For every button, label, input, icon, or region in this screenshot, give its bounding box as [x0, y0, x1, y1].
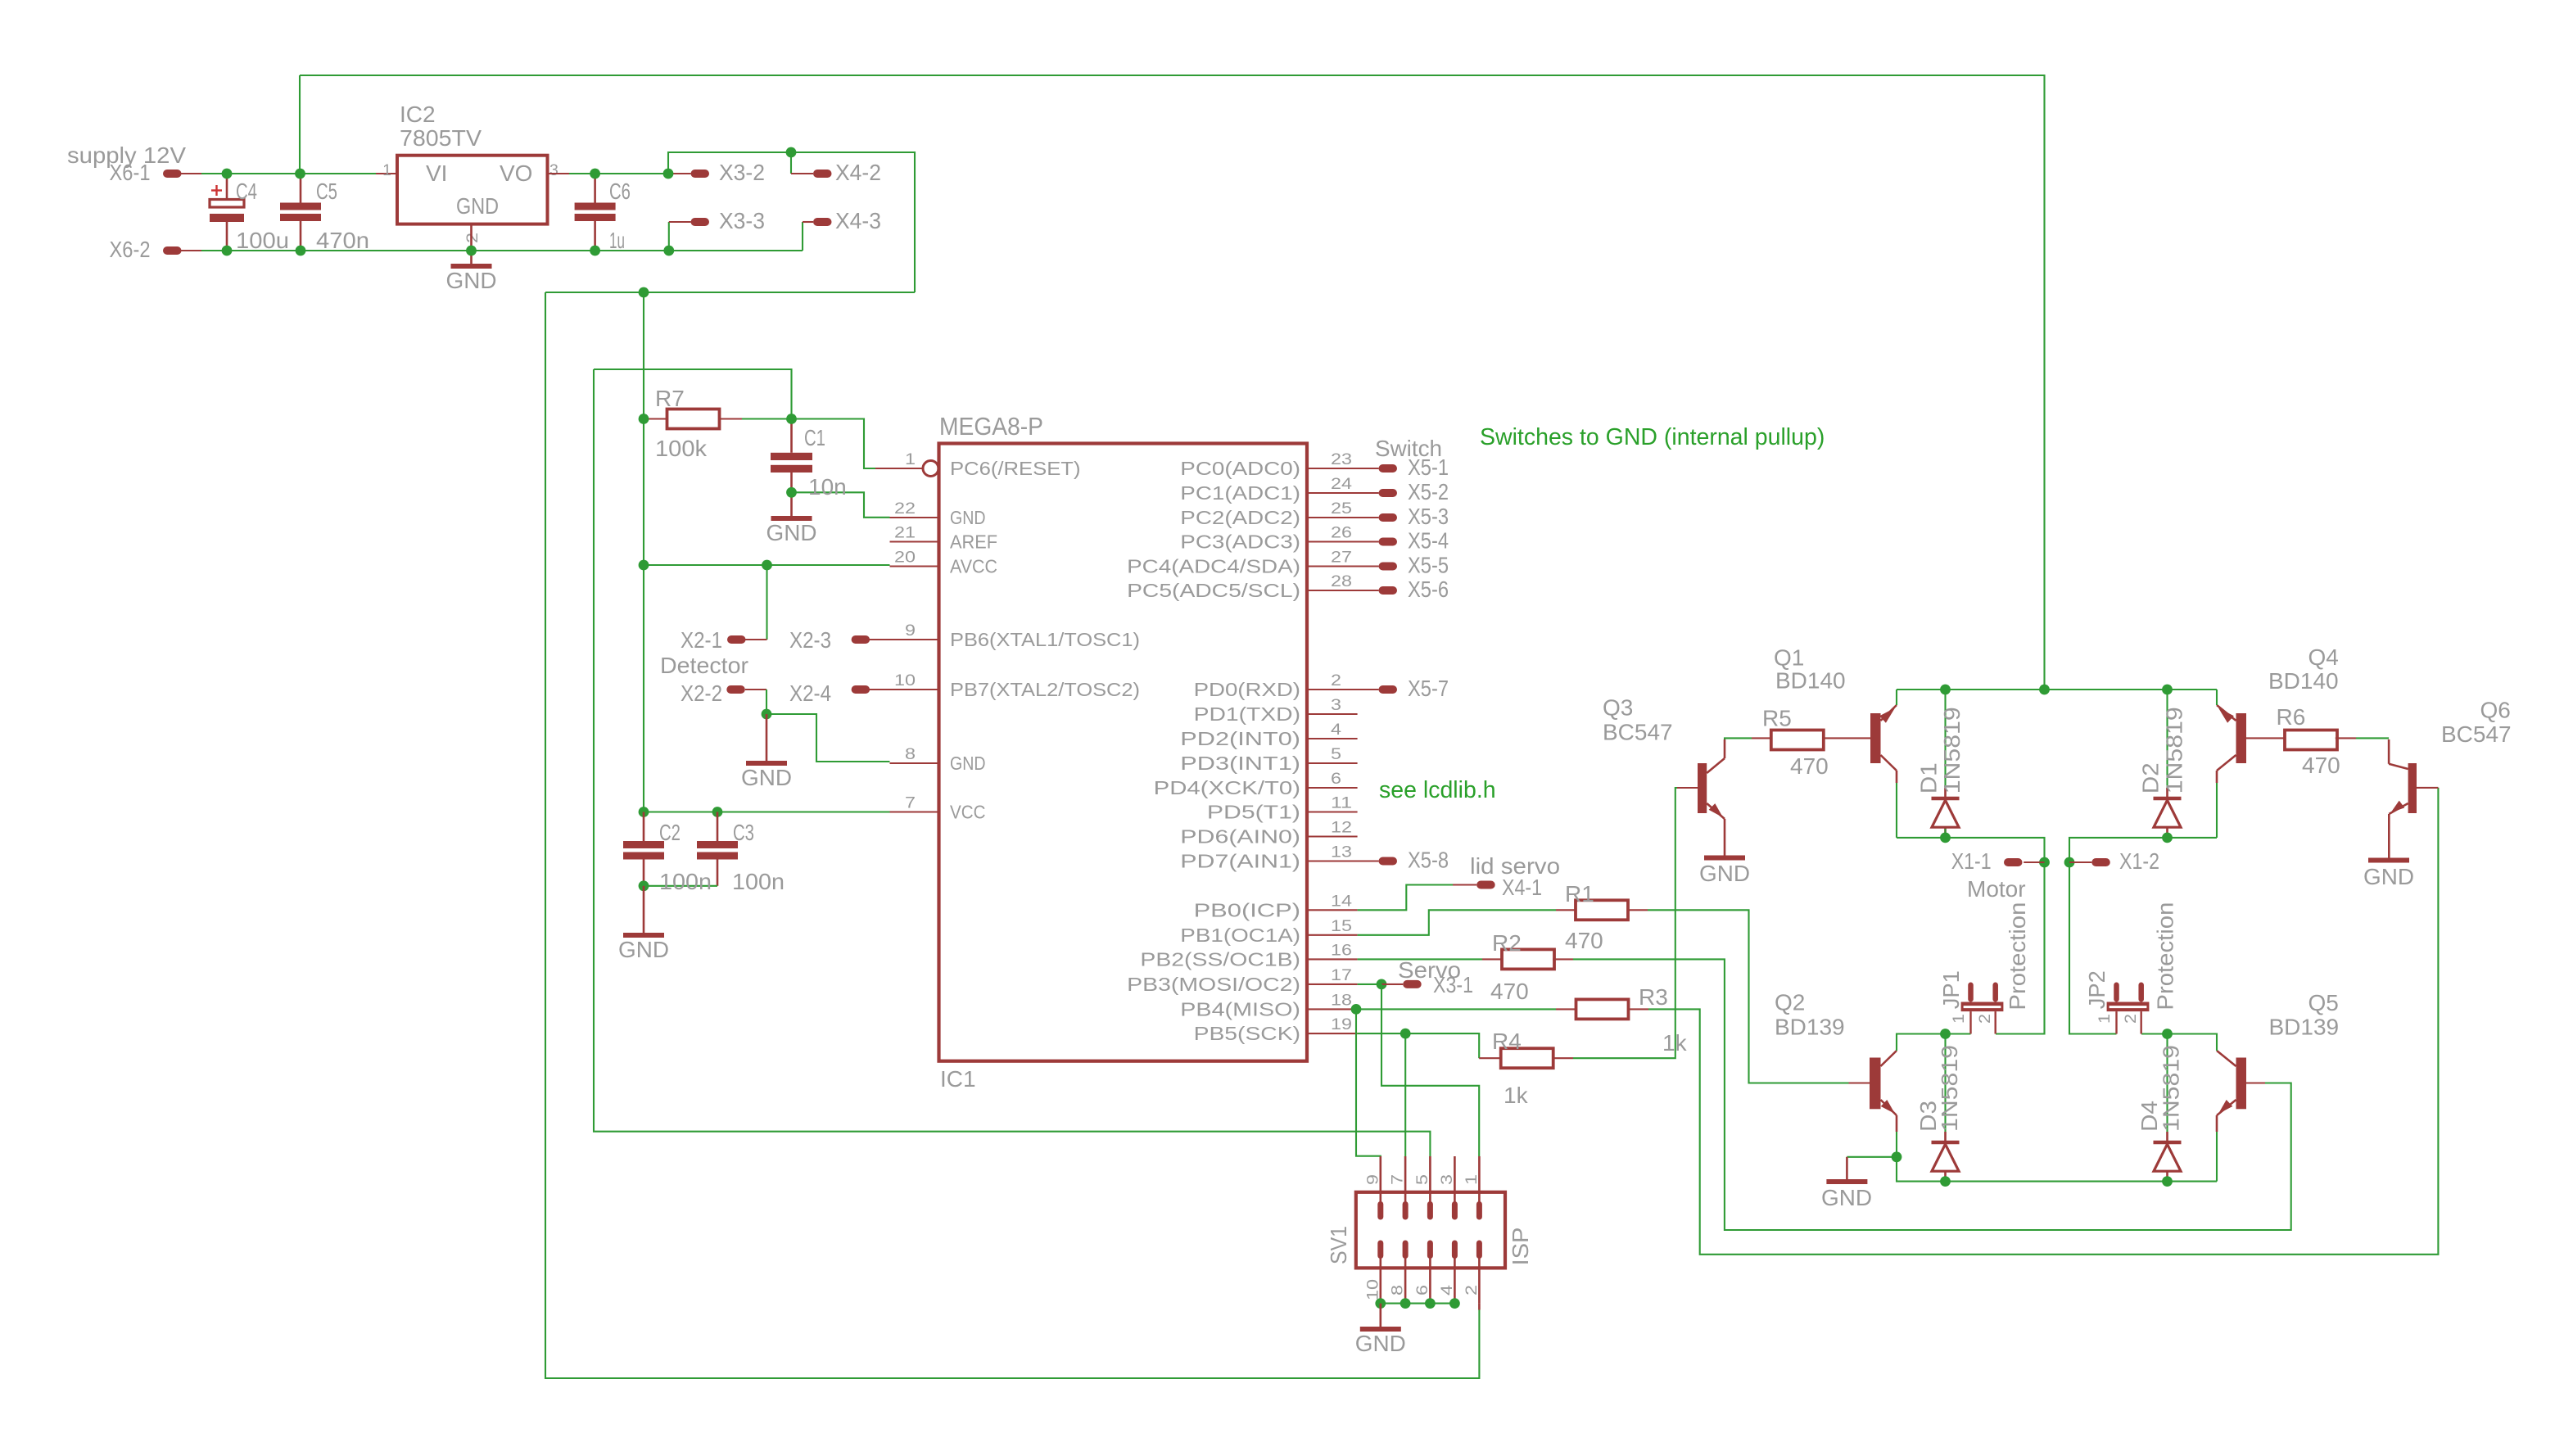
svg-text:X6-1: X6-1	[110, 160, 151, 185]
svg-text:MEGA8-P: MEGA8-P	[939, 412, 1043, 441]
svg-text:see lcdlib.h: see lcdlib.h	[1379, 777, 1496, 803]
svg-text:2: 2	[2122, 1014, 2140, 1024]
svg-text:C5: C5	[316, 179, 337, 204]
svg-text:2: 2	[1976, 1014, 1994, 1024]
svg-text:Q5: Q5	[2308, 990, 2339, 1015]
svg-text:X5-4: X5-4	[1408, 528, 1449, 554]
svg-text:1k: 1k	[1504, 1083, 1529, 1108]
svg-text:100n: 100n	[732, 869, 785, 894]
svg-text:R6: R6	[2277, 704, 2306, 730]
svg-text:VI: VI	[426, 161, 447, 186]
svg-text:R2: R2	[1492, 930, 1522, 956]
svg-text:PD0(RXD): PD0(RXD)	[1194, 679, 1300, 700]
svg-text:C6: C6	[609, 179, 631, 204]
svg-text:R4: R4	[1492, 1029, 1522, 1054]
svg-text:Q1: Q1	[1774, 645, 1804, 671]
svg-text:C3: C3	[733, 820, 754, 845]
svg-text:GND: GND	[766, 520, 817, 545]
svg-text:IC2: IC2	[400, 102, 436, 127]
svg-text:GND: GND	[2363, 864, 2414, 889]
svg-text:X2-1: X2-1	[681, 627, 722, 653]
svg-text:PB7(XTAL2/TOSC2): PB7(XTAL2/TOSC2)	[950, 679, 1140, 700]
svg-text:GND: GND	[1699, 861, 1750, 886]
svg-text:C4: C4	[236, 179, 257, 204]
svg-text:8: 8	[1389, 1285, 1407, 1295]
svg-text:3: 3	[1438, 1174, 1456, 1185]
svg-text:BD139: BD139	[2269, 1015, 2340, 1040]
svg-text:27: 27	[1331, 549, 1352, 567]
svg-text:1u: 1u	[609, 228, 625, 253]
svg-text:7805TV: 7805TV	[400, 125, 482, 151]
svg-text:GND: GND	[950, 507, 986, 528]
svg-text:PB0(ICP): PB0(ICP)	[1194, 899, 1300, 920]
svg-text:AVCC: AVCC	[950, 556, 997, 577]
svg-text:PB2(SS/OC1B): PB2(SS/OC1B)	[1140, 948, 1300, 970]
svg-text:23: 23	[1331, 450, 1352, 468]
svg-text:X1-1: X1-1	[1951, 848, 1992, 874]
svg-text:Protection: Protection	[2153, 902, 2178, 1011]
svg-text:9: 9	[905, 622, 916, 640]
svg-text:1N5819: 1N5819	[1939, 707, 1965, 794]
svg-text:24: 24	[1331, 475, 1352, 493]
svg-text:BD139: BD139	[1775, 1015, 1845, 1040]
svg-text:5: 5	[1413, 1174, 1431, 1185]
svg-text:100n: 100n	[659, 869, 712, 894]
svg-text:PD7(AIN1): PD7(AIN1)	[1180, 851, 1300, 872]
svg-text:470: 470	[1565, 928, 1603, 953]
svg-text:ISP: ISP	[1508, 1228, 1533, 1266]
svg-text:GND: GND	[950, 753, 986, 774]
svg-text:R1: R1	[1565, 881, 1594, 907]
svg-text:1: 1	[382, 161, 391, 179]
svg-text:1N5819: 1N5819	[1937, 1045, 1962, 1132]
svg-text:IC1: IC1	[940, 1066, 976, 1092]
svg-text:X2-4: X2-4	[789, 681, 831, 706]
svg-text:Q4: Q4	[2308, 644, 2339, 670]
svg-text:BD140: BD140	[1775, 668, 1846, 694]
svg-text:1: 1	[1950, 1014, 1968, 1024]
svg-text:25: 25	[1331, 500, 1352, 518]
svg-text:X5-3: X5-3	[1408, 504, 1449, 529]
svg-text:Protection: Protection	[2005, 902, 2030, 1011]
svg-text:X2-3: X2-3	[789, 627, 831, 653]
svg-text:15: 15	[1331, 917, 1352, 935]
svg-text:11: 11	[1331, 794, 1352, 812]
svg-text:X5-6: X5-6	[1408, 577, 1449, 602]
svg-text:1: 1	[905, 450, 916, 468]
svg-text:Switches to GND (internal pull: Switches to GND (internal pullup)	[1480, 424, 1825, 450]
svg-text:JP2: JP2	[2084, 970, 2109, 1009]
svg-text:X5-8: X5-8	[1408, 848, 1449, 873]
svg-text:PB5(SCK): PB5(SCK)	[1194, 1023, 1300, 1044]
svg-text:Q6: Q6	[2480, 698, 2511, 723]
svg-text:PB6(XTAL1/TOSC1): PB6(XTAL1/TOSC1)	[950, 629, 1140, 650]
svg-text:PC0(ADC0): PC0(ADC0)	[1180, 458, 1300, 479]
svg-text:X3-2: X3-2	[719, 160, 765, 185]
svg-text:PD3(INT1): PD3(INT1)	[1180, 753, 1300, 774]
svg-text:C2: C2	[659, 820, 681, 845]
svg-text:PB3(MOSI/OC2): PB3(MOSI/OC2)	[1127, 974, 1300, 995]
svg-text:Q3: Q3	[1603, 695, 1633, 721]
svg-text:1N5819: 1N5819	[2159, 1045, 2184, 1132]
svg-text:3: 3	[549, 161, 558, 179]
svg-text:470: 470	[2302, 753, 2340, 778]
svg-text:X1-2: X1-2	[2119, 848, 2159, 874]
svg-text:14: 14	[1331, 892, 1352, 910]
svg-text:2: 2	[1331, 671, 1341, 690]
svg-text:X2-2: X2-2	[681, 681, 722, 706]
svg-text:1N5819: 1N5819	[2161, 707, 2186, 794]
svg-text:470: 470	[1490, 979, 1529, 1004]
svg-text:PD2(INT0): PD2(INT0)	[1180, 728, 1300, 749]
svg-text:X3-3: X3-3	[719, 208, 765, 233]
svg-text:21: 21	[894, 524, 916, 542]
svg-text:470: 470	[1790, 753, 1829, 779]
svg-text:100k: 100k	[655, 436, 708, 461]
svg-text:PD5(T1): PD5(T1)	[1207, 802, 1300, 823]
svg-text:JP1: JP1	[1938, 970, 1964, 1009]
svg-text:X5-5: X5-5	[1408, 553, 1449, 578]
svg-text:X5-2: X5-2	[1408, 479, 1449, 504]
svg-text:R7: R7	[655, 386, 685, 411]
svg-text:D2: D2	[2138, 762, 2164, 794]
svg-text:PB4(MISO): PB4(MISO)	[1180, 998, 1300, 1020]
svg-text:PC2(ADC2): PC2(ADC2)	[1180, 507, 1300, 528]
svg-text:18: 18	[1331, 991, 1352, 1009]
svg-text:GND: GND	[741, 765, 792, 790]
svg-text:GND: GND	[1821, 1185, 1872, 1210]
svg-text:4: 4	[1331, 721, 1341, 739]
svg-text:10: 10	[1363, 1279, 1381, 1300]
svg-text:PD4(XCK/T0): PD4(XCK/T0)	[1154, 777, 1300, 798]
svg-text:PC3(ADC3): PC3(ADC3)	[1180, 531, 1300, 553]
svg-text:X4-3: X4-3	[835, 208, 881, 233]
svg-text:6: 6	[1413, 1285, 1431, 1295]
svg-text:GND: GND	[446, 268, 497, 293]
svg-text:PC1(ADC1): PC1(ADC1)	[1180, 482, 1300, 504]
svg-text:PC6(/RESET): PC6(/RESET)	[950, 458, 1081, 479]
svg-text:AREF: AREF	[950, 531, 997, 553]
svg-text:7: 7	[1389, 1174, 1407, 1185]
svg-text:20: 20	[894, 549, 916, 567]
svg-text:100u: 100u	[236, 228, 289, 253]
svg-text:BD140: BD140	[2268, 668, 2339, 694]
svg-text:PB1(OC1A): PB1(OC1A)	[1180, 925, 1300, 946]
svg-text:470n: 470n	[316, 228, 369, 253]
svg-text:4: 4	[1438, 1285, 1456, 1295]
svg-text:17: 17	[1331, 966, 1352, 984]
svg-text:SV1: SV1	[1326, 1226, 1351, 1264]
svg-text:VCC: VCC	[950, 802, 986, 823]
svg-text:PC4(ADC4/SDA): PC4(ADC4/SDA)	[1127, 556, 1300, 577]
svg-text:10n: 10n	[808, 474, 847, 500]
svg-text:3: 3	[1331, 696, 1341, 714]
svg-text:13: 13	[1331, 843, 1352, 861]
svg-text:22: 22	[894, 500, 916, 518]
svg-text:Motor: Motor	[1967, 876, 2026, 902]
svg-text:X3-1: X3-1	[1433, 972, 1473, 997]
svg-text:PC5(ADC5/SCL): PC5(ADC5/SCL)	[1127, 580, 1300, 601]
svg-text:GND: GND	[618, 937, 669, 962]
svg-text:D1: D1	[1915, 762, 1941, 794]
svg-text:GND: GND	[1355, 1331, 1406, 1356]
svg-text:X5-7: X5-7	[1408, 676, 1449, 701]
svg-text:16: 16	[1331, 941, 1352, 959]
svg-text:PD6(AIN0): PD6(AIN0)	[1180, 826, 1300, 848]
svg-text:10: 10	[894, 671, 916, 690]
svg-text:9: 9	[1363, 1174, 1381, 1185]
svg-text:GND: GND	[456, 193, 499, 219]
svg-text:7: 7	[905, 794, 916, 812]
svg-text:R5: R5	[1762, 706, 1792, 731]
svg-text:Switch: Switch	[1375, 436, 1442, 461]
svg-text:X4-1: X4-1	[1502, 875, 1542, 900]
svg-text:6: 6	[1331, 770, 1341, 788]
svg-text:28: 28	[1331, 572, 1352, 590]
svg-text:19: 19	[1331, 1015, 1352, 1033]
svg-text:Detector: Detector	[660, 653, 748, 678]
svg-text:12: 12	[1331, 819, 1352, 837]
svg-text:C1: C1	[804, 425, 825, 450]
svg-text:BC547: BC547	[1603, 720, 1673, 745]
svg-text:R3: R3	[1639, 984, 1668, 1010]
svg-text:VO: VO	[500, 161, 532, 186]
svg-text:2: 2	[464, 233, 482, 243]
svg-text:26: 26	[1331, 524, 1352, 542]
svg-text:Q2: Q2	[1775, 990, 1805, 1015]
svg-text:X6-2: X6-2	[110, 237, 151, 262]
svg-text:BC547: BC547	[2441, 721, 2512, 747]
svg-text:8: 8	[905, 745, 916, 763]
svg-text:5: 5	[1331, 745, 1341, 763]
svg-text:2: 2	[1463, 1285, 1481, 1295]
svg-text:1: 1	[1463, 1174, 1481, 1185]
svg-text:PD1(TXD): PD1(TXD)	[1194, 703, 1300, 725]
svg-text:X4-2: X4-2	[835, 160, 881, 185]
svg-text:1: 1	[2096, 1014, 2114, 1024]
